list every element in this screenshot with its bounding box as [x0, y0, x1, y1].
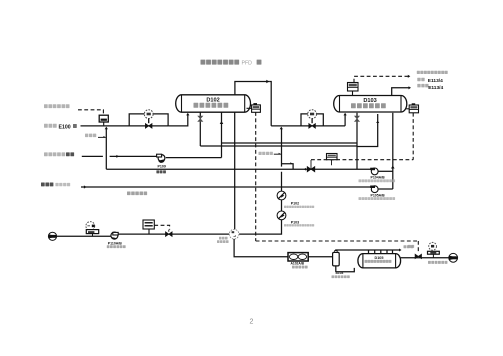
wire cyclone bottom to D105	[336, 266, 355, 272]
junction pump P111	[229, 229, 239, 239]
instrument PDI bubble 1	[144, 110, 153, 124]
node flow arrow on line C	[304, 168, 306, 171]
label desalting injection water	[127, 192, 147, 196]
svg-text:P105A/B: P105A/B	[371, 193, 386, 197]
label injection point note	[85, 134, 106, 138]
wire bottom water line	[57, 234, 230, 236]
control valve FV on line C	[307, 160, 315, 172]
label crude oil from E100	[44, 124, 77, 131]
wire D105 water outlet	[401, 257, 449, 259]
wire LC dashed signal	[311, 113, 413, 160]
off-page connector water inlet	[48, 232, 56, 240]
label fresh water	[41, 183, 70, 187]
vessel D105 water degassing drum	[358, 254, 401, 268]
wire junction to static mixer	[234, 239, 288, 257]
vessel D102 first-stage desalter	[176, 95, 251, 112]
label P102	[284, 202, 314, 208]
vessel D103 second-stage desalter	[334, 96, 407, 113]
pump P102	[277, 191, 286, 200]
wire fresh water line D	[81, 185, 371, 188]
svg-text:E100: E100	[59, 125, 71, 131]
instrument HS box	[143, 220, 170, 234]
label water from grid	[44, 152, 74, 156]
label P103	[284, 221, 314, 227]
off-page connector to sewer	[449, 253, 458, 262]
wire water line B from D102 drain	[200, 145, 357, 147]
label P110A/B	[107, 241, 126, 248]
wire D102 wash riser	[220, 112, 224, 157]
svg-text:P109: P109	[158, 164, 166, 168]
wire water line A	[222, 114, 380, 147]
control valve mixing valve 1	[145, 124, 152, 129]
wire D103 brine riser	[391, 113, 395, 189]
control valve mixing valve 2	[309, 124, 316, 129]
svg-text:P110A/B: P110A/B	[108, 241, 122, 245]
wire dashed vent signal to E113/4	[354, 75, 410, 83]
label P104A/B	[359, 176, 396, 183]
label riser note	[259, 152, 282, 155]
svg-text:D103: D103	[363, 98, 376, 104]
label P109	[156, 164, 166, 173]
label LV tag	[408, 245, 414, 248]
wire demulsifier dashed signal	[78, 110, 103, 115]
page number	[250, 319, 254, 326]
svg-text:A102A/B: A102A/B	[291, 262, 305, 266]
pump P109	[157, 154, 165, 163]
instrument PT on D103 top	[348, 83, 359, 96]
label vent gas line 1	[417, 71, 448, 74]
label vent to E113/4	[417, 78, 443, 84]
pump P105A/B	[370, 186, 393, 193]
control valve LV on outlet	[415, 254, 421, 258]
wire recycle water line C	[106, 168, 371, 170]
wire cyclone top header over D105	[336, 249, 402, 254]
svg-text:PFD: PFD	[242, 61, 253, 67]
instrument FT box on line C	[327, 154, 338, 166]
title	[201, 60, 262, 67]
valve D102 drain valve	[198, 112, 203, 146]
svg-text:P102: P102	[291, 202, 299, 206]
instrument LT on D102	[247, 103, 261, 112]
valve D103 drain valve	[355, 113, 360, 169]
pump P110	[111, 232, 118, 239]
svg-text:D105: D105	[374, 256, 383, 260]
node injection riser arrow	[105, 127, 108, 130]
label header vent	[404, 245, 414, 248]
label P105A/B	[359, 193, 396, 200]
wire mixer to cyclone	[308, 256, 333, 258]
wire D102 long drain to junction	[234, 112, 236, 229]
wire mixing-valve 1 bypass loop	[129, 114, 168, 126]
instrument PI with orifice on outlet	[428, 242, 440, 257]
label demulsifier injection	[44, 104, 70, 108]
svg-text:P103: P103	[291, 221, 299, 225]
label to sewage plant	[428, 261, 447, 264]
label oil to E113/4	[417, 84, 443, 91]
wire crude oil second stage line	[271, 125, 345, 127]
wire crude into D103	[343, 113, 346, 126]
instrument LC on D103	[406, 103, 418, 113]
static mixer A102	[288, 253, 308, 261]
instrument FIQ with orifice	[86, 222, 99, 237]
wire crude into D102	[168, 113, 189, 126]
wire desalted oil outlet	[392, 86, 411, 95]
wire riser branch into line C	[282, 162, 294, 169]
control valve on bottom line	[166, 230, 173, 237]
label A103 cyclone	[332, 271, 350, 278]
svg-text:2: 2	[250, 319, 254, 326]
wire mixing-valve 2 bypass loop	[301, 114, 323, 126]
label A102 static mixer	[291, 262, 308, 269]
instrument PDI bubble 2	[308, 110, 317, 124]
wire LT dashed signal down and right	[256, 112, 419, 253]
svg-text:E113/4: E113/4	[428, 78, 443, 84]
wire crude oil main line	[81, 125, 169, 127]
wire D102 oil overhead	[235, 80, 271, 126]
injection point mixer box	[99, 115, 108, 125]
wire injection pump riser	[239, 128, 282, 234]
label P111	[217, 237, 229, 243]
pump P104A/B	[370, 168, 393, 175]
wire P109 suction line	[82, 155, 157, 158]
svg-text:D102: D102	[206, 97, 219, 103]
svg-text:E113/4: E113/4	[428, 85, 443, 91]
wire P109 discharge	[166, 157, 222, 159]
pump P103	[277, 211, 286, 220]
node pump riser injection arrow	[280, 127, 283, 130]
cyclone vessel A103	[333, 251, 340, 266]
wire recycle riser to crude line	[105, 128, 107, 169]
svg-text:P104A/B: P104A/B	[371, 176, 386, 180]
